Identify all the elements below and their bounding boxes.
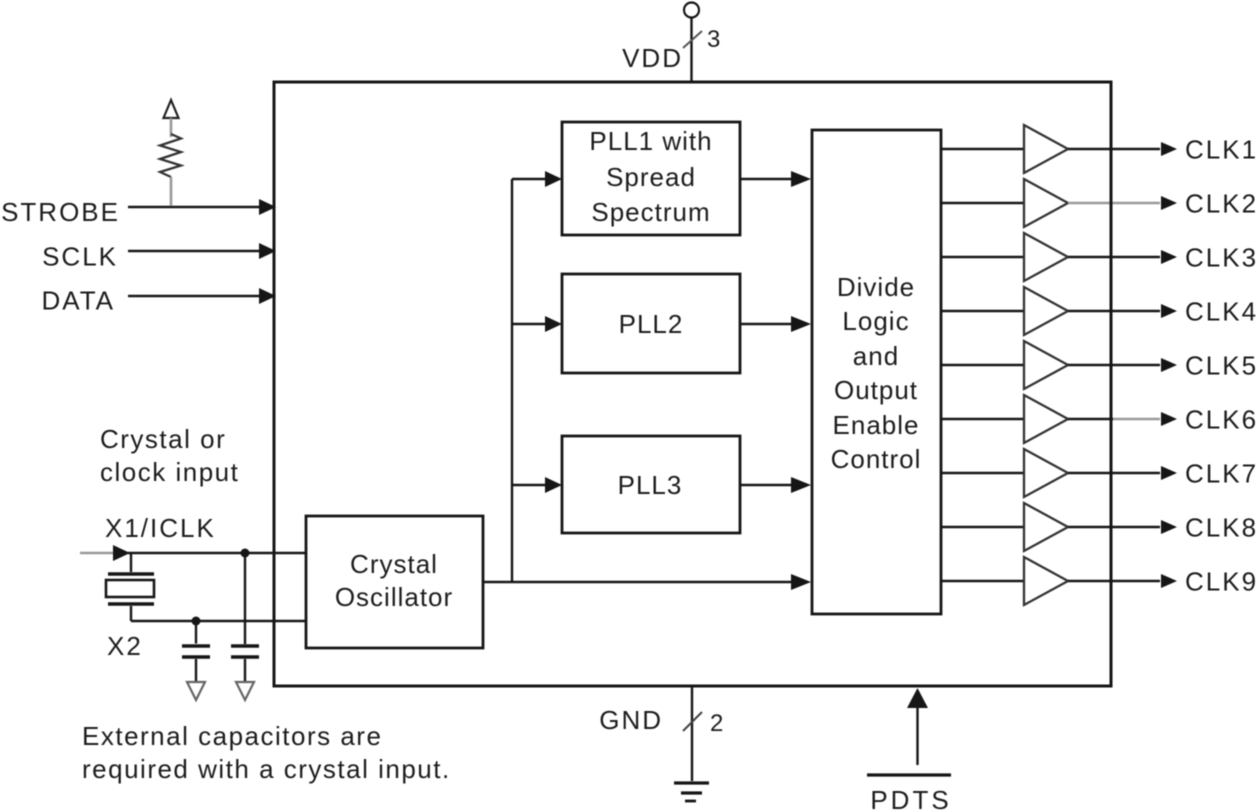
svg-text:Spectrum: Spectrum [591,197,710,227]
svg-text:Output: Output [834,375,918,405]
svg-text:PLL1 with: PLL1 with [589,126,712,156]
svg-text:X2: X2 [107,631,143,661]
svg-text:CLK1: CLK1 [1185,135,1256,165]
svg-text:Crystal or: Crystal or [100,424,226,454]
svg-text:CLK6: CLK6 [1185,405,1256,435]
svg-text:PLL3: PLL3 [618,470,683,500]
svg-text:External capacitors are: External capacitors are [82,721,382,751]
svg-text:CLK4: CLK4 [1185,297,1256,327]
svg-text:CLK3: CLK3 [1185,243,1256,273]
svg-text:GND: GND [599,705,663,735]
svg-text:Logic: Logic [842,306,909,336]
svg-text:CLK7: CLK7 [1185,459,1256,489]
svg-text:Enable: Enable [833,410,920,440]
svg-text:VDD: VDD [622,43,683,73]
svg-text:CLK5: CLK5 [1185,351,1256,381]
svg-text:required with a crystal input.: required with a crystal input. [82,754,451,784]
svg-text:CLK2: CLK2 [1185,189,1256,219]
svg-text:PLL2: PLL2 [619,309,684,339]
svg-text:DATA: DATA [42,286,115,316]
svg-text:STROBE: STROBE [1,197,120,227]
svg-text:Divide: Divide [837,272,915,302]
svg-text:Oscillator: Oscillator [335,582,453,612]
svg-text:CLK9: CLK9 [1185,567,1256,597]
svg-text:clock input: clock input [100,457,239,487]
svg-text:PDTS: PDTS [870,785,951,810]
svg-text:and: and [853,341,899,371]
svg-text:Spread: Spread [606,162,696,192]
svg-text:CLK8: CLK8 [1185,513,1256,543]
svg-text:Control: Control [831,444,922,474]
svg-text:X1/ICLK: X1/ICLK [105,513,216,543]
svg-text:3: 3 [707,26,720,53]
svg-text:Crystal: Crystal [350,549,438,579]
svg-text:SCLK: SCLK [42,242,118,272]
svg-text:2: 2 [710,710,723,737]
